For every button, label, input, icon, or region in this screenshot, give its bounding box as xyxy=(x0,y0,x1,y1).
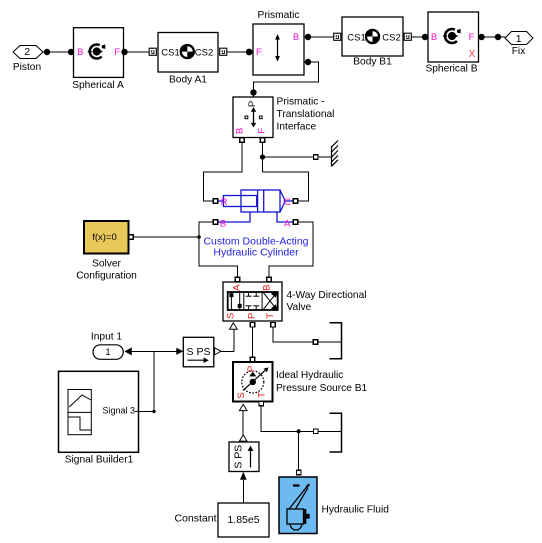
svg-text:A: A xyxy=(232,284,243,291)
svg-text:Hydraulic Cylinder: Hydraulic Cylinder xyxy=(213,247,299,259)
svg-text:Body A1: Body A1 xyxy=(169,75,207,86)
svg-text:X: X xyxy=(469,49,476,60)
svg-text:CS2: CS2 xyxy=(382,33,400,44)
svg-text:Interface: Interface xyxy=(277,122,317,133)
svg-text:1: 1 xyxy=(516,33,522,45)
svg-text:Solver: Solver xyxy=(92,259,121,270)
svg-text:P: P xyxy=(247,101,258,107)
svg-text:1.85e5: 1.85e5 xyxy=(227,514,259,526)
svg-text:Configuration: Configuration xyxy=(76,271,137,282)
svg-text:B: B xyxy=(431,32,437,43)
svg-text:R: R xyxy=(221,197,228,208)
svg-text:S PS: S PS xyxy=(232,445,244,469)
svg-text:S PS: S PS xyxy=(187,346,211,358)
svg-text:4-Way Directional: 4-Way Directional xyxy=(287,290,367,301)
svg-text:B: B xyxy=(235,128,246,134)
svg-text:Hydraulic Fluid: Hydraulic Fluid xyxy=(322,505,390,516)
svg-text:CS2: CS2 xyxy=(195,48,213,59)
svg-text:Spherical B: Spherical B xyxy=(425,63,477,74)
svg-text:B: B xyxy=(293,32,299,43)
svg-text:T: T xyxy=(256,392,267,398)
svg-text:Prismatic: Prismatic xyxy=(258,10,300,21)
svg-text:Input 1: Input 1 xyxy=(91,332,122,343)
svg-text:Signal 3: Signal 3 xyxy=(103,405,136,415)
svg-text:Prismatic -: Prismatic - xyxy=(277,97,325,108)
svg-text:1: 1 xyxy=(105,347,110,358)
svg-text:P: P xyxy=(246,366,257,372)
svg-text:P: P xyxy=(246,313,257,319)
svg-text:Fix: Fix xyxy=(512,46,526,57)
svg-text:Constant: Constant xyxy=(174,513,216,525)
svg-text:f(x)=0: f(x)=0 xyxy=(92,232,117,243)
svg-text:F: F xyxy=(257,128,268,134)
svg-text:2: 2 xyxy=(24,46,30,58)
svg-text:Translational: Translational xyxy=(277,109,335,120)
svg-text:S: S xyxy=(236,392,247,398)
svg-text:Ideal Hydraulic: Ideal Hydraulic xyxy=(276,370,343,381)
svg-text:Pressure Source B1: Pressure Source B1 xyxy=(276,383,367,394)
svg-text:S: S xyxy=(226,313,237,319)
svg-text:Piston: Piston xyxy=(13,62,41,73)
svg-text:Spherical A: Spherical A xyxy=(72,80,124,91)
svg-text:F: F xyxy=(256,47,262,58)
svg-text:Body B1: Body B1 xyxy=(353,57,392,68)
svg-text:F: F xyxy=(469,32,475,43)
svg-text:F: F xyxy=(114,47,120,58)
svg-text:B: B xyxy=(220,219,226,230)
svg-text:B: B xyxy=(77,47,83,58)
svg-text:T: T xyxy=(265,313,276,319)
svg-text:Signal Builder1: Signal Builder1 xyxy=(65,454,134,465)
svg-text:B: B xyxy=(262,285,273,291)
svg-text:A: A xyxy=(284,219,291,230)
svg-text:C: C xyxy=(284,197,291,208)
svg-text:CS1: CS1 xyxy=(161,48,179,59)
svg-text:CS1: CS1 xyxy=(347,33,365,44)
svg-text:Valve: Valve xyxy=(287,302,312,313)
